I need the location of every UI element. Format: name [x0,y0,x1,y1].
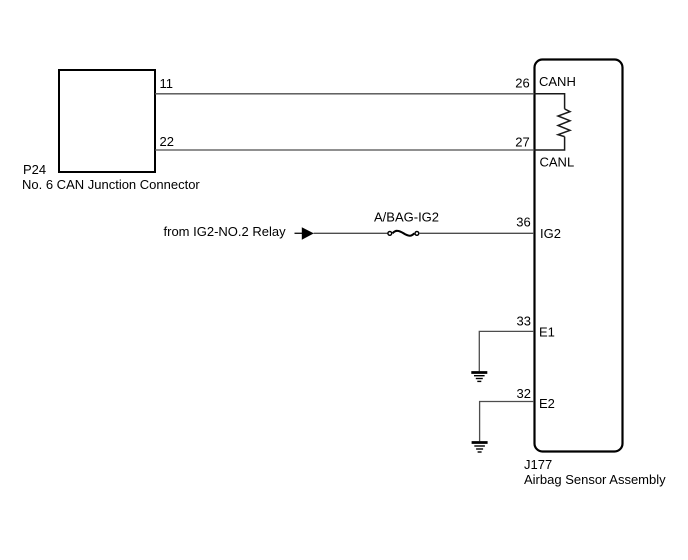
svg-text:26: 26 [515,75,529,90]
svg-text:IG2: IG2 [540,226,561,241]
wire CANL (P24 pin 22 to J177 pin 27) [155,149,534,151]
svg-text:J177: J177 [524,457,552,472]
arrow (feed from IG2-NO.2 relay) [295,232,303,234]
wire IG2 left segment [314,232,389,234]
ground G1 [471,373,487,382]
svg-text:33: 33 [517,313,531,328]
connector P24 box [59,70,155,172]
svg-text:E1: E1 [539,325,555,340]
wire CANH (P24 pin 11 to J177 pin 26) [155,93,534,95]
svg-text:CANH: CANH [539,74,576,89]
svg-text:P24: P24 [23,162,46,177]
svg-text:Airbag Sensor Assembly: Airbag Sensor Assembly [524,472,666,487]
svg-text:11: 11 [160,76,174,91]
svg-text:27: 27 [515,135,529,150]
svg-text:A/BAG-IG2: A/BAG-IG2 [374,210,439,225]
wire internal CANH stub to resistor [534,94,565,109]
svg-text:36: 36 [516,214,530,229]
wire E1 (J177 pin 33 to ground) [479,331,534,371]
wire IG2 right segment to J177 pin 36 [419,232,534,234]
svg-text:22: 22 [160,134,174,149]
wire E2 (J177 pin 32 to ground) [480,402,534,442]
svg-text:CANL: CANL [540,155,575,170]
svg-text:32: 32 [517,386,531,401]
svg-text:E2: E2 [539,396,555,411]
svg-text:from IG2-NO.2 Relay: from IG2-NO.2 Relay [164,224,287,239]
ECU J177 box [535,60,623,452]
ground G2 [472,443,488,453]
resistor R (CAN terminating resistor) [558,109,570,137]
svg-text:No. 6 CAN Junction Connector: No. 6 CAN Junction Connector [22,177,200,192]
wire internal CANL stub from resistor [534,137,565,150]
